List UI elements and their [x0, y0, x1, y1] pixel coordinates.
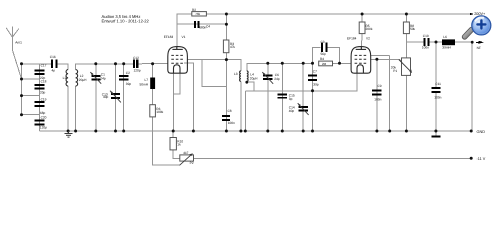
svg-text:NF: NF — [477, 46, 481, 50]
svg-text:C12: C12 — [133, 56, 139, 60]
svg-text:-11 V: -11 V — [477, 157, 486, 161]
svg-text:EF183: EF183 — [164, 35, 174, 39]
svg-text:20µH: 20µH — [250, 77, 258, 81]
svg-text:50k: 50k — [410, 27, 416, 31]
svg-text:R4: R4 — [320, 57, 324, 61]
svg-text:Entwurf 1.10 - 2011-12-22: Entwurf 1.10 - 2011-12-22 — [102, 19, 150, 24]
svg-text:GND: GND — [477, 130, 486, 134]
svg-text:56p: 56p — [321, 52, 327, 56]
svg-text:3p: 3p — [289, 97, 293, 101]
svg-text:24p: 24p — [274, 77, 280, 81]
svg-text:C10: C10 — [423, 34, 429, 38]
svg-text:C2: C2 — [126, 71, 130, 75]
svg-text:120p: 120p — [40, 126, 47, 130]
svg-text:Ant1: Ant1 — [15, 41, 22, 45]
svg-text:40p: 40p — [289, 109, 295, 113]
svg-text:200k: 200k — [366, 27, 373, 31]
svg-text:EF184: EF184 — [347, 37, 357, 41]
svg-text:P1: P1 — [393, 69, 397, 73]
svg-text:1k: 1k — [177, 143, 181, 147]
svg-text:47k: 47k — [230, 45, 236, 49]
svg-text:L1: L1 — [63, 76, 67, 80]
svg-text:V2: V2 — [366, 37, 370, 41]
svg-text:39p: 39p — [313, 82, 319, 86]
svg-text:40p: 40p — [103, 95, 109, 99]
svg-text:C7: C7 — [313, 70, 317, 74]
svg-text:39mH: 39mH — [442, 45, 451, 49]
svg-text:C19: C19 — [41, 97, 47, 101]
svg-text:100n: 100n — [422, 45, 429, 49]
svg-text:120p: 120p — [134, 69, 141, 73]
svg-text:L3: L3 — [234, 72, 238, 76]
svg-text:C17: C17 — [41, 63, 47, 67]
svg-text:100n: 100n — [374, 98, 381, 102]
svg-text:4p: 4p — [52, 68, 56, 72]
svg-text:2M: 2M — [322, 62, 327, 66]
svg-text:C16: C16 — [50, 55, 56, 59]
svg-text:100n: 100n — [434, 96, 441, 100]
svg-text:L6: L6 — [443, 35, 447, 39]
svg-text:C18: C18 — [41, 80, 47, 84]
svg-text:20µH: 20µH — [79, 78, 87, 82]
svg-text:20p: 20p — [40, 91, 46, 95]
svg-text:P2: P2 — [190, 161, 194, 165]
svg-text:24p: 24p — [100, 76, 106, 80]
svg-text:200V+: 200V+ — [474, 12, 486, 16]
svg-text:C8: C8 — [228, 109, 232, 113]
svg-text:50mH: 50mH — [140, 82, 149, 86]
svg-text:4k7: 4k7 — [183, 151, 188, 155]
svg-text:V1: V1 — [182, 35, 186, 39]
svg-text:C9: C9 — [378, 84, 382, 88]
svg-text:76k: 76k — [195, 12, 200, 16]
svg-text:C4: C4 — [206, 25, 210, 29]
svg-text:100k: 100k — [156, 110, 163, 114]
svg-text:100n: 100n — [228, 121, 235, 125]
svg-text:C3: C3 — [321, 40, 325, 44]
svg-text:68p: 68p — [40, 111, 46, 115]
svg-text:39p: 39p — [126, 82, 132, 86]
svg-text:C20: C20 — [41, 116, 47, 120]
svg-text:C11: C11 — [435, 82, 441, 86]
